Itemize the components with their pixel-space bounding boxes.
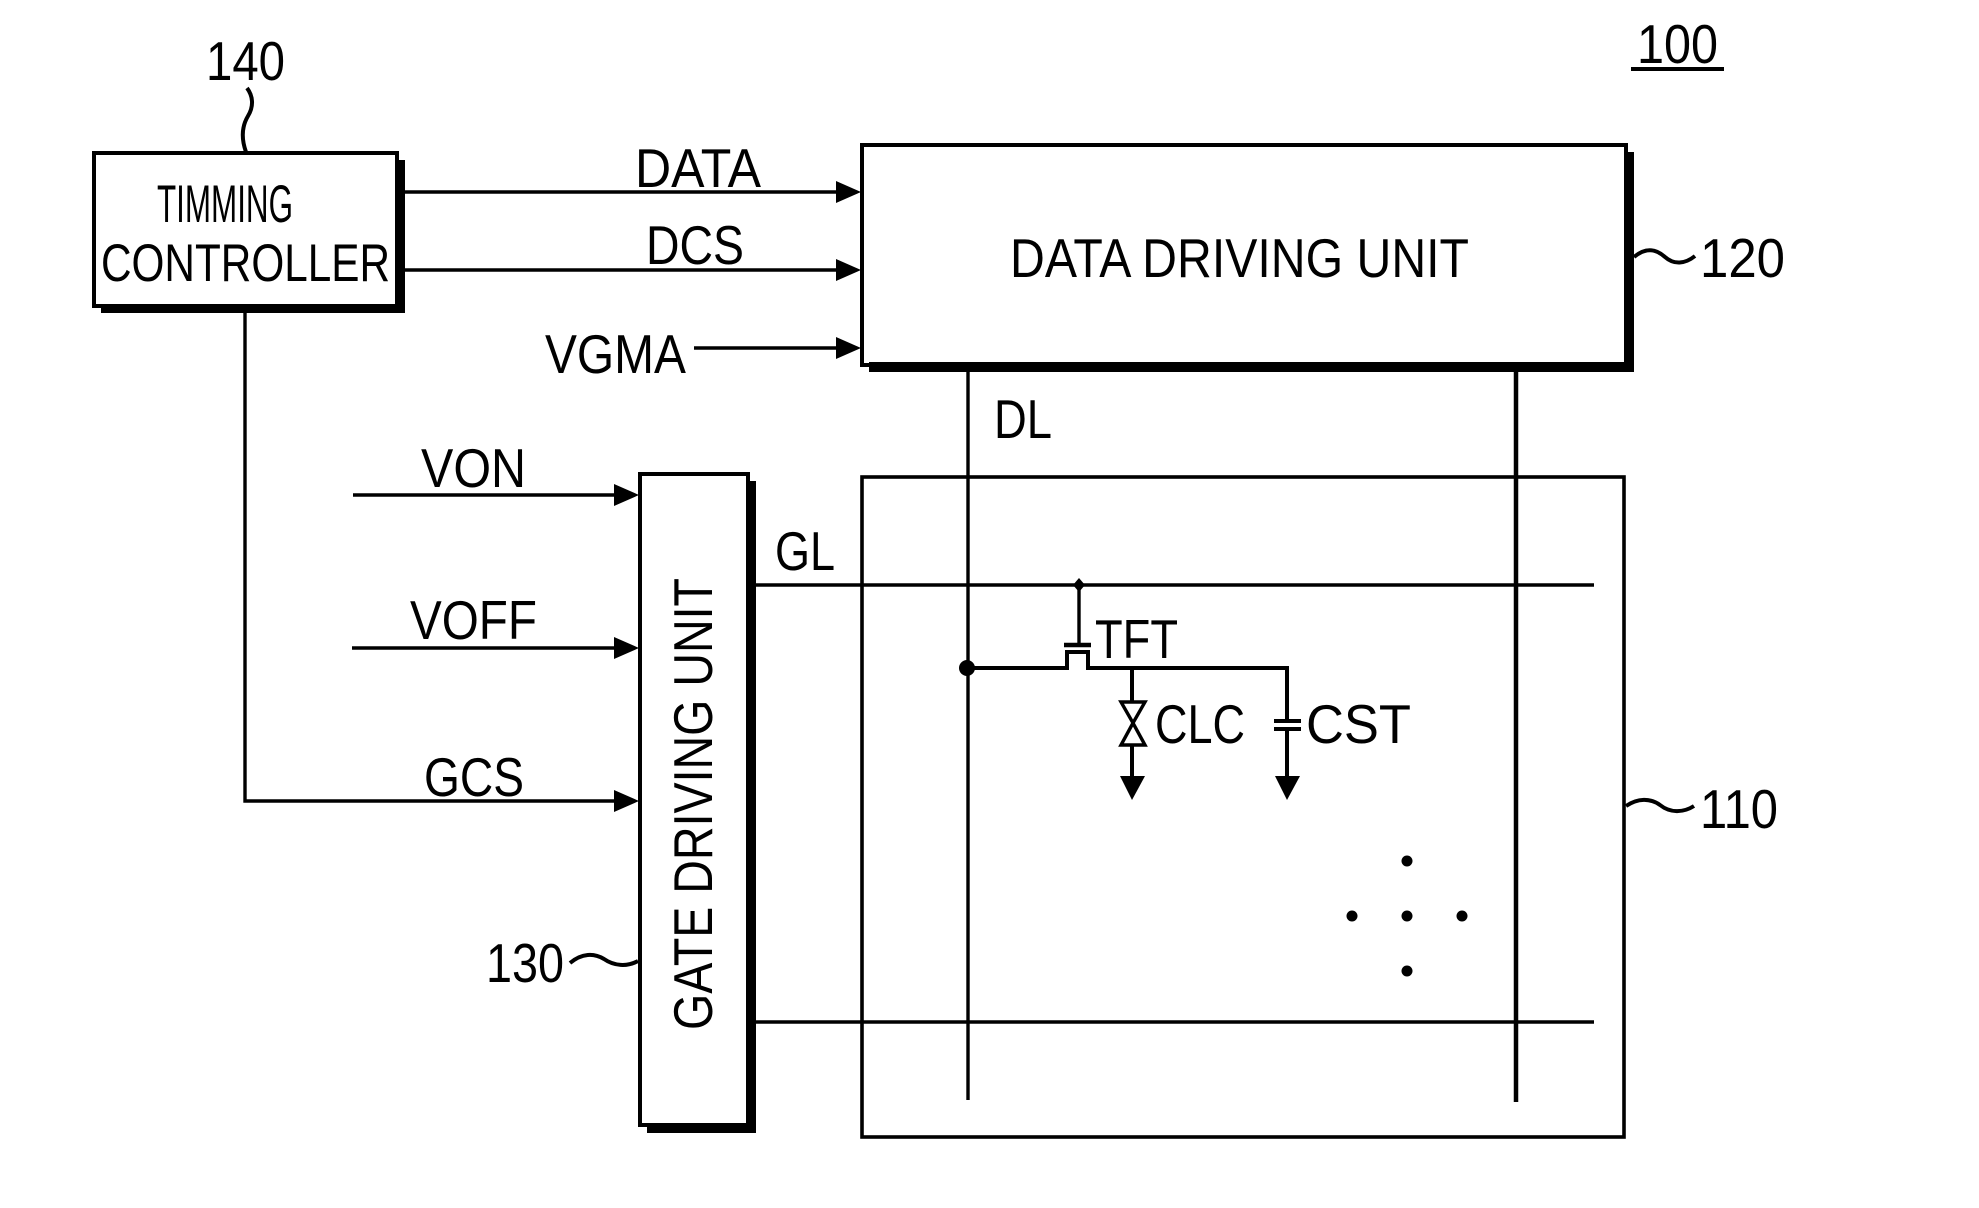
wire DATA [405, 190, 840, 193]
gate line GL2 [756, 1020, 1594, 1023]
wire TCON to GCS (vertical + horizontal) [245, 313, 625, 801]
svg-text:DATA: DATA [635, 137, 761, 199]
svg-text:CLC: CLC [1155, 693, 1245, 755]
TFT gate bar [1064, 643, 1091, 648]
TFT gate tap diamond on GL [1073, 578, 1085, 592]
svg-text:DCS: DCS [646, 214, 744, 276]
CST lower wire [1285, 729, 1289, 780]
svg-text:110: 110 [1700, 778, 1778, 840]
svg-text:DATA DRIVING UNIT: DATA DRIVING UNIT [1010, 227, 1469, 289]
svg-text:130: 130 [486, 932, 564, 994]
arrowhead GCS [614, 790, 639, 812]
svg-text:TIMMING: TIMMING [157, 175, 293, 234]
tilde leader 130 [570, 955, 638, 965]
arrowhead VGMA [836, 337, 861, 359]
label 100 [1631, 13, 1724, 75]
svg-text:140: 140 [206, 30, 285, 92]
ellipsis dots in panel [1347, 856, 1468, 977]
arrowhead DATA [836, 181, 861, 203]
panel box 110 [862, 477, 1624, 1137]
timing controller box 140 [94, 153, 405, 313]
svg-text:VGMA: VGMA [545, 323, 686, 385]
tilde leader 110 [1626, 800, 1694, 811]
timing controller label [101, 175, 390, 293]
svg-text:VOFF: VOFF [410, 589, 537, 651]
TFT channel wire (drain-source) [967, 652, 1287, 719]
CLC ground arrow [1120, 776, 1145, 800]
svg-text:CONTROLLER: CONTROLLER [101, 234, 390, 293]
svg-text:GATE DRIVING UNIT: GATE DRIVING UNIT [662, 578, 724, 1030]
CST bottom plate [1274, 727, 1301, 731]
gate line GL [756, 583, 1594, 586]
arrowhead VOFF [614, 637, 639, 659]
data line DL1 [966, 368, 969, 1100]
CST top plate [1274, 719, 1301, 723]
svg-text:GL: GL [775, 520, 835, 582]
svg-text:GCS: GCS [424, 746, 524, 808]
CLC lower wire [1130, 745, 1134, 780]
TFT gate line [1077, 585, 1080, 643]
tilde leader 120 [1634, 250, 1695, 262]
junction dot on DL1 [959, 660, 975, 676]
leader squiggle 140 [243, 88, 252, 152]
wire VGMA [694, 346, 840, 349]
data driving unit box 120 [862, 145, 1634, 372]
svg-text:TFT: TFT [1095, 608, 1178, 670]
CST ground arrow [1275, 776, 1300, 800]
svg-text:100: 100 [1637, 13, 1718, 75]
arrowhead DCS [836, 259, 861, 281]
CLC branch wire [1130, 668, 1134, 702]
CLC bowtie top triangle [1121, 702, 1145, 723]
svg-text:120: 120 [1700, 227, 1785, 289]
wire VON [353, 493, 625, 496]
svg-text:CST: CST [1306, 693, 1411, 755]
gate driving unit box 130 [640, 474, 756, 1133]
data line DL2 [1514, 368, 1519, 1102]
svg-text:DL: DL [994, 388, 1052, 450]
wire DCS [405, 268, 840, 271]
CLC bowtie bottom triangle [1121, 723, 1145, 745]
svg-text:VON: VON [421, 437, 526, 499]
arrowhead VON [614, 484, 639, 506]
wire VOFF [352, 646, 625, 649]
